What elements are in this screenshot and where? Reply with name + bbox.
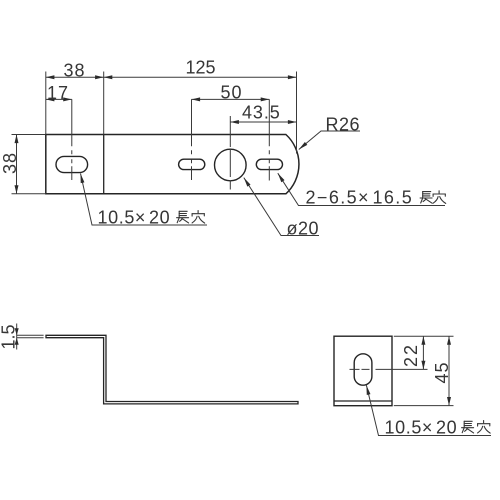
centerline left slot [71,99,73,180]
svg-text:43.5: 43.5 [242,103,281,123]
centerline circle [229,116,231,190]
dimension 22 [422,336,424,369]
dimension line 17 [46,98,72,100]
svg-text:38: 38 [0,152,20,174]
svg-text:125: 125 [186,57,216,77]
dimension 45 [448,336,450,405]
dimension 1.5 [16,324,18,350]
dimension line 38 left vertical [16,135,18,194]
svg-text:17: 17 [47,83,69,103]
leader R26 [299,131,360,150]
svg-text:R26: R26 [326,115,361,135]
extension line end bottom [394,405,454,407]
svg-text:38: 38 [64,61,86,81]
svg-text:10.5×20: 10.5×20 [385,418,458,438]
bend line [103,135,105,194]
extension line right end [296,72,298,154]
svg-text:10.5×20: 10.5×20 [98,208,171,228]
svg-text:45: 45 [432,361,452,383]
centerline end slot / extension 22 [350,368,428,370]
svg-text:50: 50 [221,83,243,103]
leader dia20 [244,178,319,236]
extension lines left 38 vertical [12,135,46,194]
extension line left edge [45,72,47,135]
centerline middle slot [191,99,193,180]
dimension line 38/125 top [46,76,297,78]
extension lines 1.5 [17,335,44,338]
plate outline top view [46,135,299,194]
svg-text:ø20: ø20 [287,219,320,239]
leader 2-6.5x16.5 [278,173,445,205]
circle hole dia20 [215,149,247,181]
Z profile outline [46,335,298,404]
svg-text:2−6.5×16.5: 2−6.5×16.5 [306,188,414,208]
slot hole 10.5x20 (left) [56,156,88,172]
extension line bend [103,72,105,135]
dimension line 50 [192,98,270,100]
svg-text:1.5: 1.5 [0,324,19,349]
dimension line 43.5 [230,121,296,123]
small slot hole 6.5x16.5 (middle) [179,159,205,169]
bend edge line end view [334,400,392,402]
centerline right slot [268,99,270,180]
extension line end top [394,335,454,337]
leader 10.5x20 end view [366,385,491,435]
svg-text:22: 22 [401,343,421,367]
leader 10.5x20 top view [81,174,208,226]
small slot hole 6.5x16.5 (right) [256,159,282,169]
end view outline [334,336,392,406]
slot hole 10.5x20 end view [354,354,372,385]
